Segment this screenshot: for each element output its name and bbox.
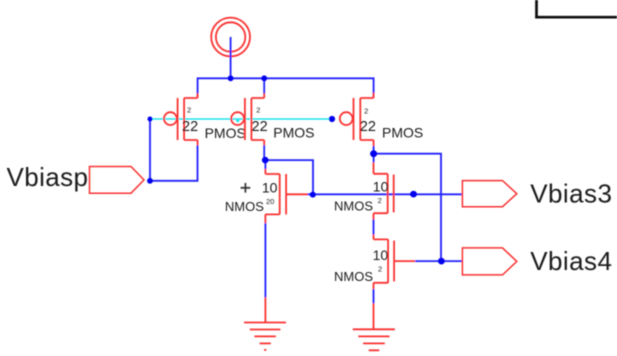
svg-text:PMOS: PMOS xyxy=(382,125,423,141)
svg-text:2: 2 xyxy=(378,196,382,205)
net Vbiasp highlighted wire (cyan) xyxy=(150,118,332,120)
transistor PMOS M2 (22) xyxy=(231,93,264,145)
wire M3 drain to M5 drain and down to Vbias4 xyxy=(374,146,441,261)
junction dot Vbias4 xyxy=(438,258,445,265)
junction dot gate net left xyxy=(148,117,153,122)
junction dot M4 gate xyxy=(310,192,316,198)
wire M6 gate to Vbias4 xyxy=(415,260,462,262)
svg-text:22: 22 xyxy=(252,119,268,135)
wire VDD stem xyxy=(230,37,232,78)
svg-text:20: 20 xyxy=(266,197,274,206)
wire M2 drain to NMOS M4 drain xyxy=(264,145,313,194)
svg-text:2: 2 xyxy=(256,106,260,115)
wire VDD rail xyxy=(198,78,374,98)
svg-text:10: 10 xyxy=(373,179,389,195)
junction dot Vbiasp xyxy=(147,178,153,184)
svg-text:PMOS: PMOS xyxy=(273,125,314,141)
svg-text:NMOS: NMOS xyxy=(225,199,264,214)
svg-text:Vbiasp: Vbiasp xyxy=(7,162,89,192)
svg-text:22: 22 xyxy=(360,119,376,135)
transistor PMOS M3 (22) xyxy=(340,93,374,146)
junction dot M2 drain xyxy=(262,157,269,164)
port Vbias3 xyxy=(462,181,516,207)
svg-text:22: 22 xyxy=(182,119,198,135)
junction dot rail-M2 source xyxy=(261,75,267,81)
transistor PMOS M1 (22) xyxy=(164,93,198,145)
wire M4 source to ground xyxy=(264,223,266,297)
svg-text:Vbias4: Vbias4 xyxy=(530,246,612,276)
junction dot M3 drain xyxy=(370,150,377,157)
ground GND2 xyxy=(353,303,395,350)
svg-text:Vbias3: Vbias3 xyxy=(530,179,612,209)
svg-text:10: 10 xyxy=(373,247,389,263)
wire Vbias3 net xyxy=(308,193,463,195)
ground GND1 xyxy=(244,297,286,350)
label M4 "+" xyxy=(241,183,251,193)
wire M6 source to ground xyxy=(373,289,375,303)
port Vbiasp xyxy=(90,167,145,194)
svg-text:10: 10 xyxy=(262,179,278,195)
svg-text:NMOS: NMOS xyxy=(334,269,373,284)
wire M1 gate/drain to Vbiasp xyxy=(150,119,198,181)
transistor NMOS M6 (10/2) xyxy=(374,235,416,290)
svg-text:2: 2 xyxy=(378,265,382,274)
power supply VDD symbol xyxy=(211,18,250,57)
transistor NMOS M5 (10/2) xyxy=(374,162,394,219)
svg-text:PMOS: PMOS xyxy=(205,125,246,141)
transistor NMOS M4 (10/20, marked +) xyxy=(265,169,307,223)
port Vbias4 xyxy=(462,248,516,275)
junction dot cyan net end xyxy=(329,116,335,122)
svg-text:2: 2 xyxy=(187,106,191,115)
wire M5 source to M6 drain xyxy=(373,220,375,235)
junction dot rail-VDD xyxy=(228,75,234,81)
svg-text:2: 2 xyxy=(364,107,368,116)
junction dot M5 gate xyxy=(410,191,417,198)
net marker cyan tick in M2 bubble xyxy=(236,119,240,123)
svg-text:NMOS: NMOS xyxy=(334,199,373,214)
